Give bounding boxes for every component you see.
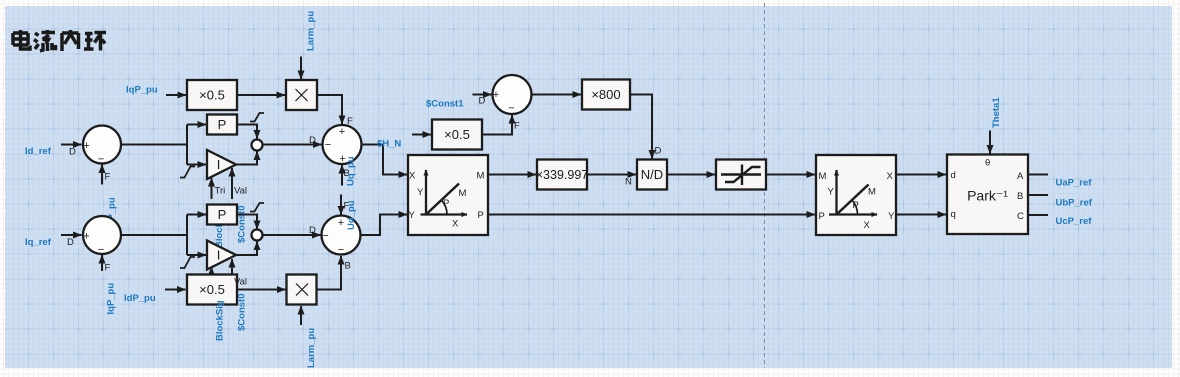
svg-text:+: + — [339, 126, 345, 138]
svg-text:Ud_pu: Ud_pu — [346, 200, 357, 230]
svg-text:Larm_pu: Larm_pu — [306, 328, 317, 368]
svg-text:IqP_pu: IqP_pu — [106, 283, 117, 315]
svg-text:−: − — [508, 103, 514, 115]
svg-text:Y: Y — [828, 187, 835, 198]
svg-text:+: + — [493, 89, 499, 101]
svg-text:F: F — [347, 116, 353, 127]
svg-text:A: A — [1017, 171, 1024, 182]
svg-text:X: X — [864, 220, 871, 231]
svg-text:X: X — [452, 219, 459, 230]
svg-text:D: D — [309, 225, 316, 236]
svg-text:N: N — [625, 177, 632, 188]
svg-text:P: P — [218, 117, 227, 132]
svg-text:C: C — [1017, 211, 1024, 222]
svg-text:P: P — [443, 198, 449, 209]
svg-text:F: F — [105, 263, 111, 274]
svg-text:D: D — [479, 96, 486, 107]
svg-text:−: − — [325, 139, 331, 151]
svg-text:B: B — [1017, 191, 1023, 202]
svg-text:×0.5: ×0.5 — [199, 88, 225, 103]
svg-text:D: D — [69, 147, 76, 158]
svg-text:+: + — [83, 140, 89, 152]
svg-text:Val: Val — [234, 186, 247, 197]
svg-text:Larm_pu: Larm_pu — [306, 11, 317, 51]
svg-text:θ: θ — [985, 158, 990, 169]
svg-text:Tri: Tri — [215, 186, 226, 197]
svg-text:$Const0: $Const0 — [237, 294, 248, 331]
svg-text:M: M — [459, 188, 467, 199]
svg-text:BlockSig: BlockSig — [215, 300, 226, 341]
svg-text:+: + — [338, 217, 344, 229]
svg-text:Y: Y — [409, 210, 416, 221]
svg-text:×0.5: ×0.5 — [444, 127, 470, 142]
svg-text:M: M — [477, 171, 485, 182]
svg-text:d: d — [951, 170, 956, 181]
svg-text:F: F — [514, 121, 520, 132]
svg-text:Id_ref: Id_ref — [25, 146, 52, 157]
svg-text:q: q — [951, 209, 956, 220]
svg-text:IqP_pu: IqP_pu — [126, 85, 158, 96]
svg-text:Park⁻¹: Park⁻¹ — [967, 188, 1008, 204]
svg-text:×0.5: ×0.5 — [199, 282, 225, 297]
svg-text:+: + — [83, 231, 89, 243]
svg-text:Y: Y — [888, 211, 895, 222]
svg-text:D: D — [309, 135, 316, 146]
svg-text:F: F — [105, 172, 111, 183]
svg-text:P: P — [218, 207, 227, 222]
svg-text:I: I — [217, 248, 221, 263]
svg-text:N/D: N/D — [641, 167, 663, 182]
svg-text:Uq_pu: Uq_pu — [346, 156, 357, 186]
svg-text:D: D — [655, 146, 662, 157]
svg-text:−: − — [98, 244, 104, 256]
svg-text:X: X — [887, 171, 894, 182]
svg-text:M: M — [868, 187, 876, 198]
svg-text:−: − — [338, 244, 344, 256]
svg-text:P: P — [478, 210, 484, 221]
svg-text:IdP_pu: IdP_pu — [124, 293, 156, 304]
svg-text:UbP_ref: UbP_ref — [1056, 198, 1093, 209]
svg-text:−: − — [322, 230, 328, 242]
svg-text:Iq_ref: Iq_ref — [25, 237, 52, 248]
svg-text:I: I — [217, 157, 221, 172]
svg-text:UcP_ref: UcP_ref — [1056, 216, 1093, 227]
svg-text:×339.997: ×339.997 — [536, 168, 589, 182]
svg-text:×800: ×800 — [591, 87, 620, 102]
svg-text:Y: Y — [417, 187, 424, 198]
svg-text:D: D — [67, 237, 74, 248]
svg-text:P: P — [853, 200, 859, 211]
svg-text:Theta1: Theta1 — [991, 97, 1002, 128]
svg-text:B: B — [345, 261, 351, 272]
svg-text:Val: Val — [234, 277, 247, 288]
svg-text:$Const1: $Const1 — [426, 99, 464, 110]
svg-text:−: − — [98, 154, 104, 166]
svg-text:M: M — [819, 171, 827, 182]
svg-text:X: X — [409, 171, 416, 182]
svg-text:P: P — [819, 211, 825, 222]
svg-text:UaP_ref: UaP_ref — [1056, 178, 1093, 189]
svg-text:$H_N: $H_N — [377, 139, 401, 150]
